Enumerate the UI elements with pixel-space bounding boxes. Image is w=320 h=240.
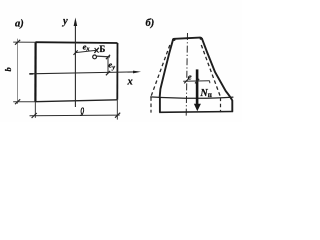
extension line bottom of left edge [34, 102, 36, 118]
svg-text:а): а) [15, 19, 24, 30]
point B cross [94, 48, 98, 53]
svg-text:x: x [127, 77, 133, 88]
svg-text:еу: еу [108, 60, 115, 71]
y axis [74, 24, 76, 107]
dashed slab right edge [220, 98, 222, 113]
dimension line ex [76, 50, 97, 52]
tick ex left [74, 50, 78, 55]
right solid slant [202, 38, 233, 111]
force arrowhead [194, 104, 201, 111]
tick e left [184, 79, 188, 84]
rectangle foundation plan [35, 42, 117, 101]
tick ey bottom [106, 71, 110, 75]
x axis [30, 72, 135, 74]
svg-text:y: y [61, 16, 68, 27]
trapezoid top edge [173, 38, 202, 41]
extension line from circle to ey dim [97, 55, 110, 58]
hook at right end of e line [209, 81, 211, 84]
tick ey top [106, 55, 110, 59]
point circle [93, 55, 97, 59]
label l [80, 108, 84, 116]
y axis arrowhead [74, 18, 78, 27]
svg-text:Б: Б [99, 44, 105, 54]
left solid slant [160, 40, 173, 97]
left dashed slant [151, 45, 170, 97]
svg-text:е: е [188, 72, 192, 82]
tick l left [32, 113, 37, 118]
dimension line ey [107, 57, 109, 73]
tick e right [195, 79, 199, 84]
extension line bottom of right edge [116, 100, 118, 120]
slab bottom edge [159, 111, 233, 114]
tick b top [15, 40, 20, 45]
x axis arrowhead [133, 71, 141, 74]
svg-text:Nп: Nп [199, 88, 212, 99]
right dashed slant [201, 45, 220, 97]
tick l right [115, 113, 120, 118]
center axis line (dash-dot) [186, 33, 187, 116]
extension line top-left [13, 41, 35, 43]
extension line bottom-left [13, 101, 35, 103]
slab left edge [159, 97, 161, 112]
force line N [196, 69, 199, 105]
slab top line [150, 97, 233, 98]
svg-text:b: b [3, 67, 13, 71]
svg-text:б): б) [146, 18, 155, 29]
dimension line b [17, 39, 19, 104]
x axis left end tick [29, 73, 33, 75]
dimension line l [30, 114, 120, 117]
dimension line e [183, 80, 209, 83]
tick b bottom [15, 99, 20, 104]
top corner ink blobs [173, 38, 176, 41]
dashed slab left edge [150, 97, 152, 112]
